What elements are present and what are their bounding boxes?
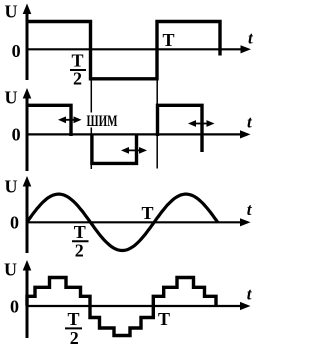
svg-text:2: 2 xyxy=(75,241,84,261)
svg-text:0: 0 xyxy=(10,213,19,233)
svg-text:2: 2 xyxy=(70,328,79,345)
svg-text:T: T xyxy=(68,309,80,329)
svg-text:T: T xyxy=(74,222,86,242)
svg-text:0: 0 xyxy=(12,125,21,145)
svg-text:T: T xyxy=(163,30,175,50)
svg-text:U: U xyxy=(5,87,18,107)
svg-text:U: U xyxy=(5,177,18,197)
svg-text:0: 0 xyxy=(12,41,21,61)
svg-text:T: T xyxy=(158,309,170,329)
svg-text:ШИМ: ШИМ xyxy=(87,113,118,130)
svg-text:U: U xyxy=(5,2,18,22)
svg-text:T: T xyxy=(142,203,154,223)
svg-text:0: 0 xyxy=(10,297,19,317)
svg-text:2: 2 xyxy=(73,69,82,89)
svg-text:T: T xyxy=(72,51,84,71)
svg-text:U: U xyxy=(4,260,17,280)
